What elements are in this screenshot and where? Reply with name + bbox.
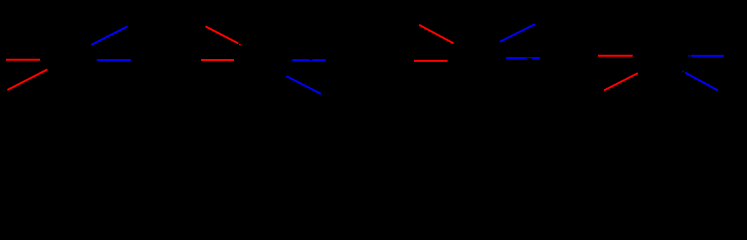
wire: blue bond highlight B15 horizontal (unit 4 right) [691,55,724,57]
wire: blue bond highlight B8 diagonal (unit 2 lower-right) [287,77,320,94]
wire: blue bond highlight B11 diagonal (unit 3 upper-right) [501,25,534,42]
wire: red bond highlight B13 horizontal (unit 4 left) [598,55,633,57]
wire: blue bond highlight B12 horizontal (unit 3 right) [506,57,540,59]
node: red tip dot of B5 after black bond crossing [239,44,241,46]
wire: red bond highlight B9 diagonal (unit 3 upper-left) [420,25,453,43]
wire: red bond highlight B10 horizontal (unit 3 left) [414,60,448,62]
node: black notch over B7 (atom label overlap) [310,59,313,60]
wire: red bond highlight B5 diagonal (unit 2 upper-left) [206,27,237,43]
wire: blue bond highlight B4 horizontal (unit 1 right) [97,59,131,61]
wire: blue bond highlight B3 diagonal (unit 1 upper-right) [92,27,127,45]
wire: red bond highlight B14 diagonal (unit 4 lower-left) [605,74,637,91]
node: blue tick at upper end of B16 before black bond crossing [682,71,684,73]
wire: blue bond highlight B16 diagonal (unit 4 lower-right) [686,73,717,90]
node: black bump over B12 bottom (atom label overlap) [525,58,533,61]
node: blue tick left of B15 before black bond crossing [688,55,689,57]
wire: red bond highlight B1 horizontal (unit 1 left) [6,59,40,61]
wire: red bond highlight B2 diagonal (unit 1 lower-left) [8,70,47,90]
wire: red bond highlight B6 horizontal (unit 2 left) [201,59,234,61]
wire: blue bond highlight B7 horizontal (unit 2 right) [292,59,326,61]
